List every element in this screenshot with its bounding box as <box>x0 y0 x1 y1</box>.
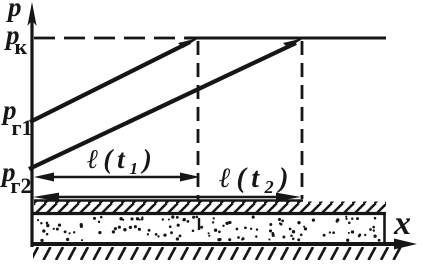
svg-text:x: x <box>393 205 411 242</box>
svg-text:p: p <box>6 0 22 22</box>
svg-text:ℓ(t2): ℓ(t2) <box>218 163 294 197</box>
svg-text:ℓ(t1): ℓ(t1) <box>87 144 157 178</box>
